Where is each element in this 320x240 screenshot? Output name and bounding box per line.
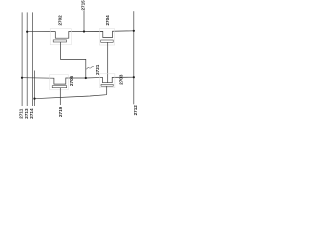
node junction dot (top wire / bus line 2) [26, 31, 28, 33]
transistor Q2705 outline box [50, 74, 68, 89]
transistor Q2702 gate electrode [53, 40, 66, 42]
transistor Q2703 gate electrode [101, 84, 113, 86]
wire 2719 (gate lead of Q2705 down to terminal) [59, 88, 61, 105]
wire 2711 (left bus line 1) [21, 12, 23, 106]
node junction dot (bottom-most wire / bus line 4) [33, 98, 35, 100]
svg-text:2712: 2712 [133, 105, 138, 116]
node junction dot (bottom wire / bus line 1) [21, 77, 23, 79]
transistor Q2704 outline box [99, 29, 114, 45]
wire 2714 (left bus line 3) [32, 12, 34, 106]
node junction dot (top wire / right line) [133, 30, 135, 32]
node 2721 junction dot (gate lead of Q2702 / bottom wire) [85, 77, 87, 79]
svg-text:2705: 2705 [69, 75, 74, 86]
transistor Q2705 gate electrode [52, 86, 66, 88]
svg-text:2721: 2721 [95, 64, 100, 75]
svg-text:2715: 2715 [81, 0, 86, 11]
wire 2712 (right vertical line) [133, 11, 135, 104]
transistor Q2704 gate electrode [101, 40, 114, 42]
node junction dot (bottom wire / right line) [133, 76, 135, 78]
transistor Q2702 outline box [50, 29, 71, 45]
svg-text:2702: 2702 [58, 15, 63, 26]
wire (bottom-most wire from bus line 4 to gate of Q2703) [35, 86, 107, 99]
wire (gate lead of Q2704 down to source of Q2703) [107, 42, 109, 82]
wire 2713 (left bus line 2) [26, 12, 28, 106]
svg-text:2714: 2714 [29, 108, 34, 119]
transistor Q2703 outline box [99, 74, 115, 88]
node junction dot (top wire / 2715 stub) [83, 30, 85, 32]
wire (left bus line 4, short) [34, 71, 36, 107]
svg-text:2704: 2704 [105, 15, 110, 26]
wire 2715 (top vertical stub) [83, 11, 85, 32]
svg-text:2719: 2719 [58, 106, 63, 117]
wire (bottom horizontal row with channel dips of Q2705 and Q2703) [22, 77, 134, 84]
wire (gate lead of Q2702 down, right, down to node junction) [61, 42, 86, 78]
leader squiggle for node 2721 [87, 67, 94, 70]
svg-text:2703: 2703 [119, 74, 124, 85]
wire (top horizontal row with channel dips of Q2702 and Q2704) [27, 31, 134, 38]
